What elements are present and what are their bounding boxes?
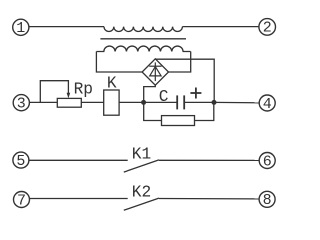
wire <box>159 159 259 161</box>
terminal 1 <box>13 19 29 37</box>
svg-text:7: 7 <box>17 192 26 209</box>
wire <box>81 101 103 103</box>
capacitor C <box>177 95 184 109</box>
svg-text:2: 2 <box>263 20 272 37</box>
wire <box>184 101 214 103</box>
switch K1 <box>124 160 159 172</box>
relay coil K <box>104 90 119 115</box>
wire <box>159 198 259 200</box>
svg-text:Rp: Rp <box>74 81 93 99</box>
terminal 2 <box>259 19 276 37</box>
wire <box>195 102 214 120</box>
wire <box>30 198 128 200</box>
junction <box>141 100 146 105</box>
terminal 6 <box>259 153 275 171</box>
svg-text:K1: K1 <box>132 146 151 164</box>
terminal 3 <box>13 95 29 113</box>
svg-text:8: 8 <box>263 192 272 209</box>
wire <box>214 101 259 103</box>
wire <box>29 26 104 28</box>
svg-text:1: 1 <box>16 20 25 37</box>
switch K2 <box>124 198 159 210</box>
wire <box>155 59 214 102</box>
svg-text:6: 6 <box>263 153 272 170</box>
potentiometer Rp <box>40 81 81 108</box>
polarity plus sign <box>190 88 201 99</box>
wire <box>182 26 259 28</box>
terminal 7 <box>14 192 30 210</box>
transformer secondary winding <box>96 46 190 51</box>
wire <box>29 159 128 161</box>
svg-text:3: 3 <box>17 96 26 113</box>
bridge rectifier <box>142 59 168 85</box>
terminal 8 <box>259 191 275 209</box>
wire <box>144 101 178 103</box>
wire <box>169 52 191 73</box>
transformer core <box>100 38 186 40</box>
svg-text:K: K <box>107 75 117 93</box>
junction <box>212 100 217 105</box>
wire <box>96 52 142 73</box>
resistor <box>162 116 195 126</box>
svg-text:K2: K2 <box>132 184 151 202</box>
wire <box>29 101 57 103</box>
wire <box>144 85 156 102</box>
svg-text:C: C <box>159 88 169 106</box>
terminal 5 <box>13 152 29 170</box>
transformer primary winding <box>104 27 182 32</box>
terminal 4 <box>259 95 275 113</box>
svg-text:4: 4 <box>263 96 272 113</box>
wire <box>119 101 144 103</box>
svg-text:5: 5 <box>16 153 25 170</box>
wire <box>144 102 162 120</box>
